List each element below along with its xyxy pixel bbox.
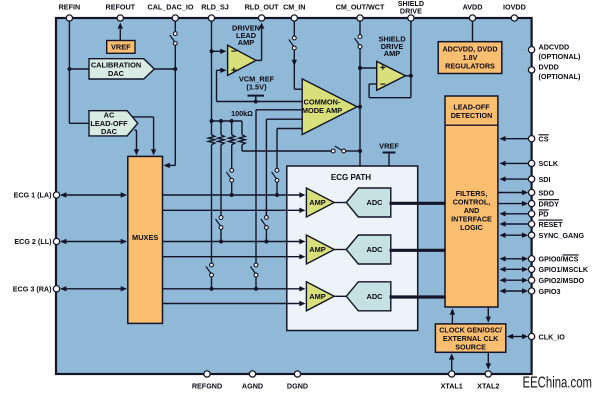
svg-text:AMP: AMP (309, 292, 325, 301)
wire adc2 output to filters block (390, 249, 446, 252)
MUXES block (128, 156, 163, 323)
node shield amp plus tap (358, 66, 362, 70)
svg-text:GPIO2/MSDO: GPIO2/MSDO (539, 276, 585, 285)
wire GPIO2 to filters block (499, 278, 528, 283)
svg-text:AGND: AGND (242, 382, 263, 391)
wire amp3 to adc3 (334, 295, 346, 297)
svg-text:+: + (380, 63, 386, 74)
svg-text:DETECTION: DETECTION (451, 111, 493, 120)
svg-text:SCLK: SCLK (539, 159, 559, 168)
channel 2 ADC (346, 235, 391, 264)
svg-text:DAC: DAC (101, 127, 118, 136)
lead-off detection / filters control block (445, 96, 498, 307)
pin XTAL2 (477, 371, 499, 391)
resistor R3 100k (229, 121, 235, 145)
wire ECG3 electrode to MUXES (60, 286, 127, 291)
pin ECG 2 (LL) (14, 237, 59, 246)
EEChina.com watermark (523, 375, 593, 392)
svg-text:REFGND: REFGND (192, 382, 222, 391)
wire CM_IN net (292, 21, 303, 89)
svg-text:PD: PD (539, 210, 549, 219)
wire adc3 output to filters block (390, 295, 446, 298)
switch R1-ECG3 (206, 263, 213, 277)
node R1 top (210, 119, 214, 123)
wire XTAL1 to clock (449, 353, 454, 370)
svg-text:AMP: AMP (238, 38, 254, 47)
pin CAL_DAC_IO (148, 3, 194, 22)
svg-text:ADCVDD: ADCVDD (539, 43, 570, 52)
VCM_REF label (239, 74, 275, 91)
svg-text:DVDD: DVDD (539, 63, 559, 72)
pin REFIN (59, 3, 81, 22)
svg-text:GPIO3: GPIO3 (539, 287, 561, 296)
wire SYNC_GANG to filters block (499, 233, 528, 238)
svg-text:AMP: AMP (309, 198, 325, 207)
wire driven lead amp output to RLD_OUT (256, 23, 264, 61)
svg-text:DGND: DGND (287, 382, 308, 391)
wire SDO to filters block (498, 190, 528, 195)
node R3-ECG1 junction (230, 193, 234, 197)
wire R3 to ECG1 line (231, 145, 233, 195)
node CM2-ECG3 junction (254, 287, 258, 291)
wire GPIO1 to filters block (499, 267, 528, 272)
svg-text:AMP: AMP (309, 245, 325, 254)
svg-text:ECG 2 (LL): ECG 2 (LL) (14, 237, 52, 246)
svg-text:XTAL1: XTAL1 (441, 382, 463, 391)
svg-text:DRDY: DRDY (539, 199, 560, 208)
channel 3 ADC (346, 282, 391, 311)
node R3 top (230, 119, 234, 123)
switch CAL_DAC_IO (170, 32, 177, 46)
100k ohm label (231, 109, 253, 118)
svg-text:SOURCE: SOURCE (455, 343, 486, 352)
pin ADCVDD optional (528, 43, 581, 61)
channel 1 amp (306, 188, 334, 217)
driven lead amp U1 (228, 45, 256, 76)
svg-text:(1.5V): (1.5V) (246, 83, 267, 92)
svg-text:(OPTIONAL): (OPTIONAL) (539, 72, 582, 81)
clock gen/osc/external clk source block (435, 324, 505, 352)
svg-text:100kΩ: 100kΩ (231, 109, 253, 118)
svg-text:REGULATORS: REGULATORS (445, 62, 495, 71)
switch CM3-ECG2 (261, 216, 268, 230)
svg-text:VREF: VREF (379, 142, 399, 151)
wire R4 to WCT line (242, 145, 360, 151)
pin PD (528, 210, 548, 219)
pin GPIO0/MCS (528, 255, 578, 264)
svg-text:ECG 1 (LA): ECG 1 (LA) (14, 191, 53, 200)
wire DRDY to filters block (498, 201, 528, 206)
svg-text:MUXES: MUXES (132, 233, 158, 242)
pin REFGND (192, 371, 222, 391)
AC lead-off DAC (89, 111, 138, 136)
wire calibration DAC output (154, 68, 176, 70)
pin GPIO2/MSDO (528, 276, 584, 285)
pin SHIELD DRIVE (398, 0, 424, 21)
shield drive amp label (378, 35, 406, 59)
pin REFOUT (106, 3, 136, 22)
svg-text:MODE AMP: MODE AMP (302, 106, 342, 115)
pin RESET (528, 220, 563, 229)
pin SYNC_GANG (528, 231, 584, 240)
svg-text:EEChina.com: EEChina.com (523, 375, 593, 392)
node R1-ECG3 junction (210, 287, 214, 291)
calibration DAC (89, 59, 154, 79)
pin AVDD (463, 3, 483, 22)
pin GPIO3 (528, 287, 560, 296)
wire CM_OUT/WCT net (359, 21, 361, 166)
pin GPIO1/MSCLK (528, 265, 588, 274)
wire REFIN net vertical (69, 21, 89, 123)
pin ECG 3 (RA) (13, 284, 60, 293)
wire ECG2 reference line (163, 254, 306, 259)
wire AC lead-off DAC to MUXES line2 (134, 130, 139, 155)
svg-text:−: − (380, 80, 386, 91)
wire amp1 to adc1 (334, 202, 346, 204)
switch CM_OUT (355, 35, 362, 49)
wire shield amp output to SHIELD DRIVE (406, 21, 411, 75)
svg-text:ADC: ADC (366, 245, 383, 254)
wire ECG1 reference line (163, 208, 306, 213)
wire VREF to REFOUT arrow (118, 23, 123, 41)
wire AC lead-off DAC to MUXES line1 (132, 117, 156, 155)
svg-text:GPIO1/MSCLK: GPIO1/MSCLK (539, 265, 589, 274)
svg-text:VREF: VREF (111, 43, 131, 52)
svg-text:ECG PATH: ECG PATH (331, 173, 371, 182)
svg-text:DRIVE: DRIVE (400, 7, 422, 16)
svg-text:LOGIC: LOGIC (460, 223, 483, 232)
pin IOVDD (503, 3, 526, 22)
svg-text:−: − (231, 47, 237, 58)
channel 3 amp (306, 282, 334, 311)
switch CM4-ECG1 (272, 168, 279, 182)
svg-text:RESET: RESET (539, 220, 564, 229)
switch CM2-ECG3 (251, 263, 258, 277)
pin ECG 1 (LA) (14, 191, 60, 200)
node RLD_SJ minus-input junction (210, 49, 214, 53)
channel 2 amp (306, 235, 334, 264)
node WCT junction on CM_OUT net (358, 149, 362, 153)
wire resistor top bus (212, 120, 243, 122)
wire common-mode amp output (357, 106, 360, 108)
wire adc1 output to filters block (390, 202, 446, 205)
ECG PATH block (287, 166, 418, 331)
node CM4-ECG1 junction (275, 193, 279, 197)
pin RLD_OUT (245, 3, 280, 22)
ADCVDD DVDD 1.8V regulators block (438, 42, 502, 74)
svg-text:CS: CS (539, 135, 549, 144)
wire GPIO3 to filters block (499, 288, 528, 293)
wire clock to XTAL2 (486, 352, 491, 369)
svg-text:ECG 3 (RA): ECG 3 (RA) (13, 284, 52, 293)
switch CM_IN (289, 36, 296, 50)
wire GPIO0 to filters block (499, 256, 528, 261)
wire CLK_IO bidirectional (507, 334, 528, 339)
wire common-mode amp input3 column (266, 119, 302, 241)
svg-text:RLD_SJ: RLD_SJ (201, 3, 229, 12)
svg-text:SDI: SDI (539, 175, 551, 184)
switch R2-ECG2 (216, 216, 223, 230)
switch R3-ECG1 (226, 168, 233, 182)
pin SCLK (528, 159, 558, 168)
resistor R1 100k (208, 121, 214, 145)
wire SCLK to filters block (499, 161, 528, 166)
svg-text:CM_IN: CM_IN (283, 3, 305, 12)
pin RLD_SJ (201, 3, 229, 22)
svg-text:CAL_DAC_IO: CAL_DAC_IO (148, 3, 194, 12)
svg-text:SDO: SDO (539, 188, 555, 197)
svg-text:REFIN: REFIN (59, 3, 81, 12)
wire common-mode amp input2 column (256, 110, 302, 289)
svg-text:ADC: ADC (366, 198, 383, 207)
node common-mode amp output junction (358, 105, 362, 109)
pin CLK_IO (528, 332, 565, 341)
node VCM junction (254, 100, 258, 104)
node R2-ECG2 junction (219, 240, 223, 244)
wire ECG2 electrode to MUXES (60, 239, 127, 244)
wire VCM_REF line to common-mode amp (217, 101, 303, 103)
wire ECG3 channel line (163, 286, 306, 291)
wire R1 to ECG3 line (211, 145, 213, 289)
node R2 top (219, 119, 223, 123)
resistor R4 100k (239, 121, 245, 145)
svg-text:+: + (231, 66, 237, 77)
svg-text:DAC: DAC (108, 69, 125, 78)
wire RLD_SJ net (211, 21, 213, 121)
pin DRDY (528, 199, 559, 208)
svg-text:CLK_IO: CLK_IO (539, 332, 566, 341)
VREF source symbol at ECG path (383, 153, 396, 167)
VCM_REF source symbol (248, 96, 265, 102)
node CM3-ECG2 junction (264, 240, 268, 244)
wire R2 to ECG2 line (220, 145, 222, 242)
svg-text:REFOUT: REFOUT (106, 3, 136, 12)
node REFIN-calibration junction (67, 67, 71, 71)
switch WCT external (331, 146, 345, 153)
svg-text:AMP: AMP (384, 49, 400, 58)
resistor R2 100k (218, 121, 224, 145)
svg-text:RLD_OUT: RLD_OUT (245, 3, 280, 12)
node CAL_DAC_IO junction (173, 67, 177, 71)
wire SDI to filters block (499, 176, 528, 181)
wire RESET to filters block (499, 221, 528, 226)
wire driven lead amp minus input (212, 49, 227, 54)
svg-text:(OPTIONAL): (OPTIONAL) (539, 52, 582, 61)
common-mode amp U3 (302, 79, 357, 135)
pin CM_OUT/WCT (336, 3, 385, 22)
svg-text:IOVDD: IOVDD (503, 3, 526, 12)
VREF box (107, 41, 135, 54)
wire ECG2 channel line (163, 239, 306, 244)
svg-text:GPIO0/MCS: GPIO0/MCS (539, 255, 579, 264)
svg-text:AVDD: AVDD (463, 3, 483, 12)
pin SDI (528, 175, 550, 184)
wire filters to clock up arrow (450, 308, 455, 324)
channel 1 ADC (346, 188, 391, 217)
wire AVDD to regulators (472, 21, 474, 41)
svg-text:XTAL2: XTAL2 (477, 382, 499, 391)
pin DVDD optional (528, 63, 581, 81)
pin CS (528, 135, 548, 144)
pin SDO (528, 188, 554, 197)
node shield amp output junction (409, 74, 413, 78)
pin XTAL1 (441, 371, 463, 391)
chip boundary box (56, 18, 532, 374)
wire CAL_DAC_IO net (164, 21, 176, 168)
wire amp2 to adc2 (334, 249, 346, 251)
wire common-mode amp input4 column (277, 129, 302, 196)
wire ECG1 channel line (163, 192, 306, 197)
shield drive amp U2 (377, 61, 406, 90)
wire CS to filters block (499, 136, 528, 141)
driven lead amp label (232, 24, 260, 48)
wire shield amp feedback (369, 76, 411, 98)
wire shield amp plus input (360, 67, 377, 69)
wire ECG1 electrode to MUXES (60, 192, 127, 197)
pin DGND (287, 371, 308, 391)
VREF label at ECG path (379, 142, 399, 151)
pin CM_IN (283, 3, 305, 22)
svg-text:CM_OUT/WCT: CM_OUT/WCT (336, 3, 385, 12)
wire filters to clock down arrow (486, 307, 491, 323)
svg-text:ADC: ADC (366, 292, 383, 301)
wire ECG3 reference line (163, 301, 306, 306)
wire driven lead amp plus input (217, 68, 227, 102)
pin AGND (242, 371, 263, 391)
svg-text:SYNC_GANG: SYNC_GANG (539, 231, 585, 240)
wire PD to filters block (499, 211, 528, 216)
